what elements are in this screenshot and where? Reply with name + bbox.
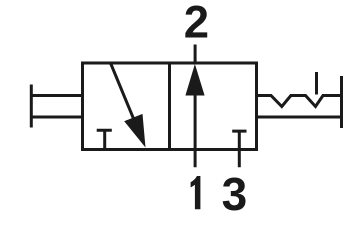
plunger rod top <box>31 94 84 97</box>
flow arrow shaft / port 1 line (right position) <box>194 94 197 167</box>
svg-text:3: 3 <box>222 168 248 220</box>
svg-text:2: 2 <box>184 0 209 48</box>
port label 1 <box>191 176 201 209</box>
spring seat tick <box>315 72 318 95</box>
flow arrow (left position, 2 to 3) <box>111 63 135 121</box>
spring end plate <box>340 76 343 128</box>
valve body (two-position box) <box>83 63 257 150</box>
arrowhead (left position) <box>124 114 145 148</box>
port 2 stub <box>194 45 197 64</box>
return spring zigzag <box>257 96 342 107</box>
position divider <box>168 63 171 150</box>
blocked port T (left position) <box>97 130 112 149</box>
spring bottom rod <box>257 116 342 119</box>
plunger end plate (manual actuator) <box>30 85 33 128</box>
arrowhead (right position, 1 to 2) <box>185 64 204 96</box>
plunger rod bottom <box>31 116 84 119</box>
blocked port 3 T (right position) <box>232 131 246 167</box>
